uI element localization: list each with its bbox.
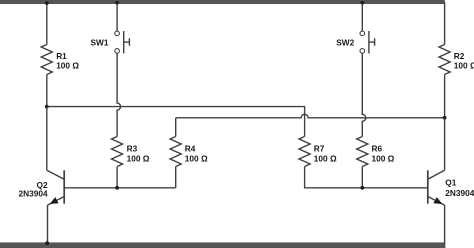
transistor Q1 collector diagonal	[428, 170, 445, 179]
junction dot SW2 at top rail	[360, 1, 364, 5]
switch SW2 plunger bar	[368, 31, 370, 53]
switch SW1 actuator stem	[124, 41, 130, 43]
switch SW1 top terminal circle	[115, 31, 120, 36]
svg-text:100 Ω: 100 Ω	[372, 153, 395, 163]
wire Q1 collector vertical	[444, 118, 446, 170]
wire Q1 emitter to ground rail	[444, 205, 446, 243]
switch SW1 plunger bar	[123, 31, 125, 53]
wire SW2 top lead	[361, 3, 363, 31]
transistor Q2 emitter arrow	[51, 198, 58, 204]
switch SW2 bottom terminal circle	[360, 49, 365, 54]
wire R1 top lead	[46, 3, 48, 45]
wire R2 bottom lead to node B	[444, 75, 446, 118]
junction dot R3 at Q2 base wire	[115, 186, 119, 190]
junction dot R6 at Q1 base wire	[360, 186, 364, 190]
transistor Q1 emitter arrow	[434, 198, 441, 204]
wire Q2 collector vertical	[46, 107, 48, 171]
wire R7 bottom lead and Q1 base line	[305, 167, 428, 188]
wire node B to R4 (lower cross-coupling wire, hops over R7 lead)	[176, 114, 445, 117]
svg-text:100 Ω: 100 Ω	[454, 61, 474, 71]
wire R4 top lead from lower cross-coupling wire	[175, 118, 177, 137]
V+ top rail	[0, 0, 445, 4]
svg-text:2N3904: 2N3904	[19, 188, 48, 198]
wire Q2 emitter to ground rail	[47, 205, 49, 243]
wire Q2 base line	[64, 187, 176, 189]
svg-text:SW2: SW2	[336, 37, 354, 47]
wire R3 bottom lead	[116, 167, 118, 188]
wire SW1 top lead	[116, 3, 118, 31]
wire SW2 bottom lead hopping over lower cross-coupling wire	[362, 53, 366, 136]
wire R2 top lead	[444, 2, 446, 45]
svg-text:R3: R3	[127, 143, 138, 153]
node B junction dot (R2 / Q1 collector / wire)	[443, 116, 447, 120]
svg-text:100 Ω: 100 Ω	[314, 153, 337, 163]
resistor R6	[357, 137, 368, 167]
resistor R7	[299, 137, 310, 167]
switch SW1 bottom terminal circle	[115, 49, 120, 54]
switch SW2 top terminal circle	[360, 31, 365, 36]
wire node A to R7 (upper cross-coupling wire)	[47, 107, 305, 137]
junction dot R1 at top rail	[45, 1, 49, 5]
resistor R1	[41, 45, 52, 75]
resistor R4	[170, 137, 181, 167]
svg-text:100 Ω: 100 Ω	[56, 61, 79, 71]
node A junction dot (R1 / Q2 collector / wire)	[45, 105, 49, 109]
svg-text:100 Ω: 100 Ω	[127, 153, 150, 163]
svg-text:2N3904: 2N3904	[445, 188, 474, 198]
junction dot Q2 emitter at ground rail	[45, 241, 49, 245]
transistor Q1 base bar	[427, 170, 429, 203]
switch SW2 actuator cap	[374, 38, 376, 46]
wire R1 bottom lead to node A	[46, 75, 48, 107]
switch SW2 actuator stem	[369, 41, 375, 43]
svg-text:100 Ω: 100 Ω	[185, 153, 208, 163]
transistor Q2 base bar	[63, 170, 65, 203]
wire R6 bottom lead	[361, 167, 363, 188]
resistor R2	[439, 45, 450, 75]
resistor R3	[112, 137, 123, 167]
switch SW1 actuator cap	[128, 38, 130, 46]
transistor Q2 emitter diagonal	[48, 197, 65, 206]
svg-text:Q1: Q1	[445, 177, 456, 187]
svg-text:SW1: SW1	[91, 37, 109, 47]
wire SW1 bottom lead hopping over node-A wire	[117, 53, 121, 136]
svg-text:R6: R6	[372, 143, 383, 153]
svg-text:R7: R7	[314, 143, 325, 153]
junction dot SW1 at top rail	[115, 1, 119, 5]
transistor Q1 emitter diagonal	[428, 197, 445, 206]
svg-text:R4: R4	[185, 143, 196, 153]
wire R4 bottom lead	[175, 167, 177, 188]
ground bottom rail	[0, 242, 445, 248]
transistor Q2 collector diagonal	[47, 170, 64, 179]
